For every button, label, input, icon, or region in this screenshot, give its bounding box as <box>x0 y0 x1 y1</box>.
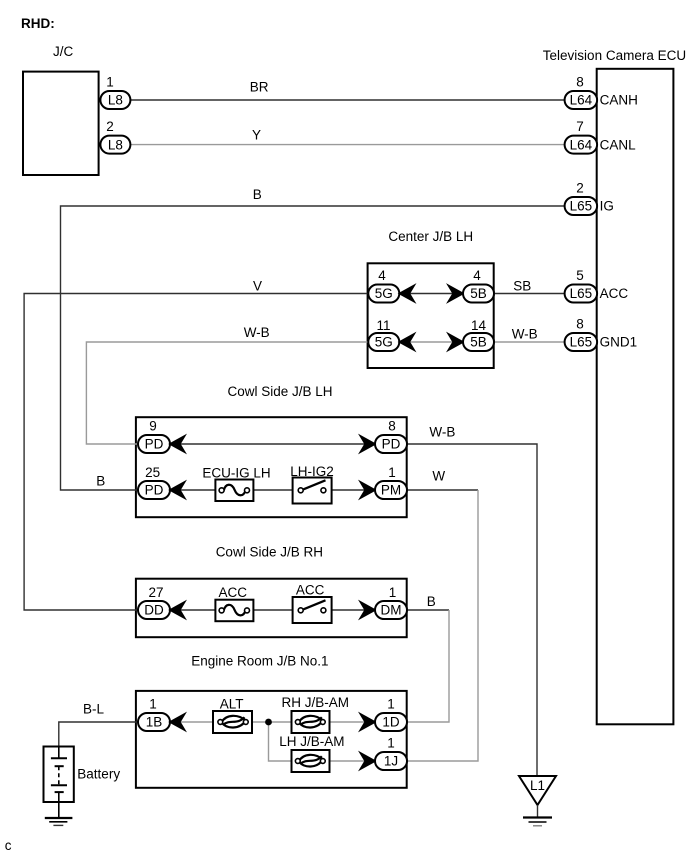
arrow right Cowl LH row2 <box>361 482 376 498</box>
wire Center J/B internal row1 <box>399 293 464 295</box>
svg-text:BR: BR <box>250 79 269 94</box>
svg-text:DD: DD <box>144 603 164 618</box>
svg-text:9: 9 <box>149 419 157 434</box>
svg-text:L65: L65 <box>570 286 593 301</box>
svg-text:L65: L65 <box>570 335 593 350</box>
svg-text:IG: IG <box>600 199 614 214</box>
wire Y from J/C L8 pin2 to ECU L64 pin7 <box>130 144 565 146</box>
svg-text:W-B: W-B <box>512 326 538 341</box>
wire B vertical down to Engine Room J/B 1D <box>407 610 449 722</box>
svg-text:Television Camera ECU: Television Camera ECU <box>543 48 686 63</box>
svg-text:1: 1 <box>149 697 157 712</box>
fuse ACC (Cowl Side J/B RH) <box>215 585 253 621</box>
svg-text:11: 11 <box>376 318 390 333</box>
svg-text:Battery: Battery <box>77 767 120 782</box>
svg-text:PD: PD <box>145 483 164 498</box>
svg-text:c: c <box>5 838 12 853</box>
wire B-L from Battery to Engine Room J/B 1B pin1 <box>59 722 138 758</box>
svg-text:4: 4 <box>378 268 386 283</box>
wire Cowl Side J/B LH internal row1 <box>170 443 375 445</box>
svg-text:V: V <box>253 279 262 294</box>
wire Cowl Side J/B LH internal row2 through ECU-IG LH fuse and LH-IG2 switch <box>170 489 375 491</box>
wire V from Center J/B 5G pin4 to Cowl Side J/B RH DD pin27 <box>24 294 368 611</box>
svg-text:25: 25 <box>145 465 160 480</box>
svg-text:ACC: ACC <box>600 286 629 301</box>
svg-text:L64: L64 <box>570 137 593 152</box>
Engine Room J/B No.1 box <box>136 691 407 788</box>
connector L65 pin 2 IG (ECU) <box>565 181 614 216</box>
svg-text:5B: 5B <box>470 335 487 350</box>
svg-text:L8: L8 <box>108 93 123 108</box>
arrow left Cowl RH row <box>170 602 185 618</box>
svg-text:5G: 5G <box>375 335 393 350</box>
connector L65 pin 5 ACC (ECU) <box>565 268 629 303</box>
Cowl Side J/B LH box <box>136 417 407 517</box>
arrow right Engine Room row1 <box>361 714 376 730</box>
arrow left Engine Room row1 <box>170 714 185 730</box>
svg-text:14: 14 <box>471 318 487 333</box>
fuse ECU-IG LH <box>202 466 270 502</box>
wire Engine Room J/B junction branch to LH J/B-AM <box>269 722 376 761</box>
svg-text:1J: 1J <box>384 754 398 769</box>
connector 5G pin 11 (Center J/B) <box>368 318 399 351</box>
svg-text:5G: 5G <box>375 286 393 301</box>
svg-text:4: 4 <box>473 268 481 283</box>
wire W from Cowl Side J/B LH PM pin1 (dark segment) <box>407 489 478 491</box>
svg-text:Engine Room J/B No.1: Engine Room J/B No.1 <box>191 654 328 669</box>
svg-text:SB: SB <box>513 278 531 293</box>
Cowl Side J/B RH box <box>136 579 407 638</box>
svg-text:2: 2 <box>576 181 584 196</box>
switch ACC (Cowl Side J/B RH) <box>293 583 332 624</box>
connector L64 pin 7 CANL (ECU) <box>565 119 637 154</box>
svg-text:ALT: ALT <box>220 696 244 711</box>
wire SB from Center J/B 5B pin4 to ECU L65 pin5 ACC <box>494 293 566 295</box>
svg-text:B: B <box>427 594 436 609</box>
svg-text:1D: 1D <box>382 715 400 730</box>
svg-text:LH J/B-AM: LH J/B-AM <box>279 734 344 749</box>
arrow right Center J/B row1 <box>449 286 464 302</box>
wire W-B from Cowl Side J/B LH PD pin8 down to ground L1 <box>407 444 537 776</box>
svg-text:5B: 5B <box>470 286 487 301</box>
connector PM pin 1 (Cowl Side J/B LH) <box>375 465 407 499</box>
svg-text:L8: L8 <box>108 137 123 152</box>
svg-text:PD: PD <box>382 437 401 452</box>
Center J/B LH box <box>368 263 494 368</box>
connector L64 pin 8 CANH (ECU) <box>565 75 638 110</box>
ECU box Television Camera ECU <box>597 69 674 725</box>
wire Cowl Side J/B RH internal row <box>170 609 375 611</box>
wire W-B from Center J/B 5B pin14 to ECU L65 pin8 GND1 <box>494 341 566 343</box>
svg-text:L65: L65 <box>570 199 593 214</box>
svg-text:PD: PD <box>145 437 164 452</box>
connector 5B pin 4 (Center J/B) <box>463 268 494 303</box>
svg-text:CANH: CANH <box>600 93 638 108</box>
connector L8 pin 2 (J/C) <box>100 119 130 154</box>
svg-text:Center J/B LH: Center J/B LH <box>388 229 473 244</box>
svg-text:B-L: B-L <box>83 701 105 716</box>
svg-text:27: 27 <box>148 585 163 600</box>
svg-text:W-B: W-B <box>244 325 270 340</box>
wire Center J/B internal row2 <box>399 341 464 343</box>
connector 1J pin 1 (Engine Room J/B) <box>375 736 407 771</box>
connector 1B pin 1 (Engine Room J/B) <box>138 697 170 732</box>
svg-text:ECU-IG LH: ECU-IG LH <box>202 466 270 481</box>
wire BR from J/C L8 pin1 to ECU L64 pin8 <box>130 99 565 101</box>
connector 1D pin 1 (Engine Room J/B) <box>375 697 407 732</box>
battery <box>44 747 121 819</box>
fusible link RH J/B-AM <box>282 695 350 733</box>
wire B from Cowl Side J/B RH DM pin1 (dark segment) <box>407 609 449 611</box>
connector 5G pin 4 (Center J/B) <box>368 268 399 303</box>
wire W-B from Center J/B 5G pin11 to Cowl Side J/B LH PD pin9 <box>86 342 368 444</box>
svg-text:8: 8 <box>576 75 584 90</box>
connector DD pin 27 (Cowl Side J/B RH) <box>138 585 170 619</box>
arrow right Engine Room row2 <box>361 753 376 769</box>
arrow left Cowl LH row1 <box>170 436 185 452</box>
svg-text:W: W <box>432 469 445 484</box>
fusible link LH J/B-AM <box>279 734 344 772</box>
wire W vertical down to Engine Room J/B 1J <box>407 490 478 761</box>
arrow left Cowl LH row2 <box>170 482 185 498</box>
svg-text:Y: Y <box>252 128 261 143</box>
connector PD pin 25 (Cowl Side J/B LH) <box>138 465 170 499</box>
connector DM pin 1 (Cowl Side J/B RH) <box>375 585 407 619</box>
connector L65 pin 8 GND1 (ECU) <box>565 317 638 352</box>
svg-text:ACC: ACC <box>296 583 325 598</box>
svg-text:RHD:: RHD: <box>21 16 55 31</box>
arrow right Cowl LH row1 <box>361 436 376 452</box>
svg-text:LH-IG2: LH-IG2 <box>290 464 334 479</box>
arrow right Center J/B row2 <box>449 334 464 350</box>
J/C box <box>23 72 99 175</box>
connector PD pin 8 (Cowl Side J/B LH) <box>375 419 407 454</box>
svg-text:1: 1 <box>387 697 395 712</box>
connector 5B pin 14 (Center J/B) <box>463 318 494 351</box>
svg-text:8: 8 <box>576 317 584 332</box>
arrow left Center J/B row2 <box>400 334 415 350</box>
fusible link ALT <box>213 696 252 733</box>
svg-text:Cowl Side J/B RH: Cowl Side J/B RH <box>216 545 323 560</box>
svg-text:5: 5 <box>576 268 584 283</box>
svg-text:B: B <box>96 474 105 489</box>
svg-text:ACC: ACC <box>219 585 248 600</box>
svg-text:GND1: GND1 <box>600 335 638 350</box>
connector L8 pin 1 (J/C) <box>100 75 130 110</box>
svg-text:W-B: W-B <box>429 424 455 439</box>
svg-text:1: 1 <box>106 75 114 90</box>
svg-text:L64: L64 <box>570 93 593 108</box>
svg-text:B: B <box>253 187 262 202</box>
svg-text:1B: 1B <box>146 715 163 730</box>
arrow right Cowl RH row <box>361 602 376 618</box>
svg-text:J/C: J/C <box>53 44 74 59</box>
svg-text:DM: DM <box>381 603 402 618</box>
svg-text:2: 2 <box>106 119 114 134</box>
svg-text:PM: PM <box>381 483 401 498</box>
wire B from ECU L65 pin2 IG to Cowl Side J/B LH PD pin25 <box>61 206 566 490</box>
svg-text:Cowl Side J/B LH: Cowl Side J/B LH <box>228 384 333 399</box>
svg-text:1: 1 <box>387 736 395 751</box>
svg-text:7: 7 <box>576 119 584 134</box>
svg-text:1: 1 <box>388 465 396 480</box>
ground connector L1 <box>519 776 556 818</box>
ground symbol below L1 <box>523 818 552 826</box>
svg-text:RH J/B-AM: RH J/B-AM <box>282 695 350 710</box>
svg-text:1: 1 <box>389 585 397 600</box>
svg-text:CANL: CANL <box>600 137 637 152</box>
ground below battery <box>45 818 73 825</box>
junction node (Engine Room J/B) <box>265 719 272 726</box>
svg-text:L1: L1 <box>530 778 545 793</box>
svg-text:8: 8 <box>388 419 396 434</box>
wire Engine Room J/B internal row1 <box>170 721 375 723</box>
arrow left Center J/B row1 <box>400 286 415 302</box>
switch LH-IG2 <box>290 464 334 504</box>
connector PD pin 9 (Cowl Side J/B LH) <box>138 419 170 454</box>
